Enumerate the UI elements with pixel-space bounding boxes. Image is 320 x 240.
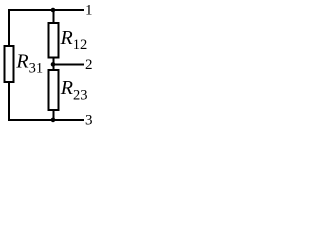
resistor R23 body <box>48 70 58 110</box>
resistor R31 body <box>5 46 14 82</box>
wire terminal 2 stub <box>53 63 84 65</box>
svg-text:3: 3 <box>85 113 93 129</box>
wire bottom (node 3 rail) <box>8 119 53 121</box>
wire right branch middle <box>52 58 54 71</box>
resistor R12 body <box>48 23 58 58</box>
wire left branch upper <box>8 9 10 46</box>
wire top (node 1 rail) <box>8 9 53 11</box>
wire terminal 1 stub <box>53 9 84 11</box>
svg-text:2: 2 <box>85 57 93 73</box>
wire right branch upper <box>52 10 54 23</box>
svg-text:1: 1 <box>85 3 93 19</box>
wire terminal 3 stub <box>53 119 84 121</box>
svg-text:R12: R12 <box>60 27 88 53</box>
node 2 junction dot <box>51 62 56 67</box>
svg-text:R23: R23 <box>60 77 88 103</box>
node 3 junction dot <box>51 118 56 123</box>
wire right branch lower <box>52 110 54 120</box>
svg-text:R31: R31 <box>15 50 43 76</box>
wire left branch lower <box>8 82 10 121</box>
node 1 junction dot <box>51 8 56 13</box>
